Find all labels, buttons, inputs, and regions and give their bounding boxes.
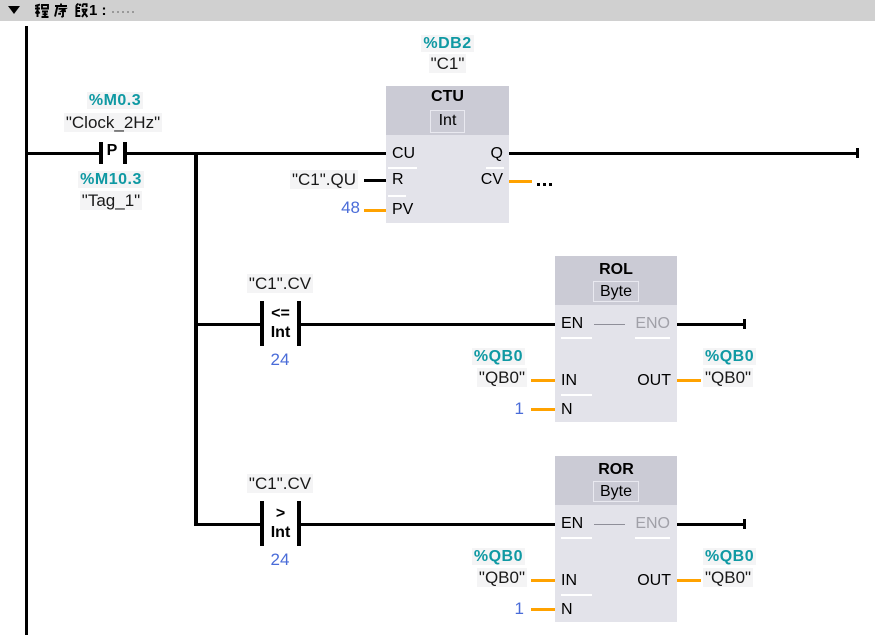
CTU pin R	[392, 172, 404, 188]
wire branch to comparator1	[194, 323, 260, 326]
ROR separator under EN	[561, 537, 592, 539]
left power rail	[25, 26, 28, 635]
block ROR	[555, 456, 677, 622]
comparator2 left bar	[260, 501, 264, 546]
counter DB name C1	[386, 55, 509, 72]
ROR pin EN	[561, 516, 583, 532]
ROR pin ENO	[610, 516, 670, 532]
label Tag_1	[0, 192, 222, 209]
wire R input	[364, 179, 386, 182]
operand C1.CV rung3	[210, 475, 350, 492]
operand C1.QU	[238, 171, 358, 188]
ROR pin N	[561, 602, 573, 618]
ROL EN-ENO dash	[594, 324, 625, 326]
operand QB0 rung2 right	[703, 369, 753, 386]
ROL pin OUT	[611, 373, 671, 389]
operand QB0 rung2 left	[405, 369, 527, 386]
comparator1 <=	[264, 306, 297, 322]
comparator1 left bar	[260, 301, 264, 346]
title text 程序段 (SVG strokes)	[35, 3, 89, 19]
counter block CTU	[386, 86, 509, 223]
label %QB0 rung3 left	[405, 549, 525, 565]
wire Q output	[509, 152, 856, 155]
wire CV output (orange)	[509, 180, 532, 183]
contact P right bar	[123, 142, 127, 164]
value 24 rung3	[210, 551, 350, 568]
wire PV input (orange)	[364, 209, 386, 212]
wire ROL IN (orange)	[531, 379, 555, 382]
value 1 rung2	[460, 400, 524, 417]
ROL pin EN	[561, 316, 583, 332]
CTU pin CV	[443, 172, 503, 188]
separator under CU	[388, 167, 417, 169]
value 24 rung2	[210, 351, 350, 368]
network title bar	[0, 0, 875, 21]
ROR pin IN	[561, 573, 577, 589]
value 48	[300, 199, 360, 216]
label %QB0 rung2 right	[703, 349, 756, 365]
ROR separator under IN	[561, 594, 592, 596]
operand C1.CV rung2	[210, 275, 350, 292]
wire ROL N (orange)	[531, 408, 555, 411]
wire comparator2 to ROR	[301, 523, 555, 526]
comparator2 Int	[264, 525, 297, 541]
branch junction vertical wire	[194, 152, 198, 526]
CTU pin Q	[443, 146, 503, 162]
ROL pin N	[561, 402, 573, 418]
separator under Q	[486, 167, 504, 169]
CTU pin PV	[392, 202, 413, 218]
wire comparator1 to ROL	[301, 323, 555, 326]
ROL separator under ENO	[635, 337, 670, 339]
separator under R	[388, 195, 406, 197]
rung2 end tick	[743, 319, 746, 329]
ROL pin ENO	[610, 316, 670, 332]
counter DB label %DB2	[386, 36, 509, 52]
contact P letter	[102, 143, 122, 159]
ROL separator under EN	[561, 337, 592, 339]
wire ROL OUT (orange)	[677, 379, 701, 382]
ROR separator under ENO	[635, 537, 670, 539]
operand QB0 rung3 left	[405, 569, 527, 586]
value 1 rung3	[460, 600, 524, 617]
block ROL	[555, 256, 677, 422]
ROR EN-ENO dash	[594, 524, 625, 526]
comparator1 Int	[264, 325, 297, 341]
comparator2 >	[264, 506, 297, 522]
wire ROR N (orange)	[531, 608, 555, 611]
wire ROR OUT (orange)	[677, 579, 701, 582]
wire ROR IN (orange)	[531, 579, 555, 582]
ROL separator under IN	[561, 394, 592, 396]
CV ellipsis dots	[537, 183, 540, 186]
label %M0.3	[0, 93, 230, 109]
title "1 :"	[89, 3, 107, 18]
CTU pin CU	[392, 146, 415, 162]
rung3 end tick	[743, 519, 746, 529]
label Clock_2Hz	[0, 114, 226, 131]
comparator2 right bar	[297, 501, 301, 546]
wire rung1 P to CTU	[127, 152, 386, 155]
contact P left bar	[99, 142, 103, 164]
operand QB0 rung3 right	[703, 569, 753, 586]
title dots	[112, 11, 114, 13]
ROL pin IN	[561, 373, 577, 389]
wire ROR ENO out	[677, 523, 743, 526]
label %M10.3	[0, 172, 222, 188]
label %QB0 rung2 left	[405, 349, 525, 365]
comparator1 right bar	[297, 301, 301, 346]
rung1 end tick	[856, 148, 859, 158]
ROR pin OUT	[611, 573, 671, 589]
wire ROL ENO out	[677, 323, 743, 326]
label %QB0 rung3 right	[703, 549, 756, 565]
wire branch to comparator2	[194, 523, 260, 526]
wire rung1 rail to P contact	[25, 152, 99, 155]
collapse triangle	[8, 6, 20, 14]
